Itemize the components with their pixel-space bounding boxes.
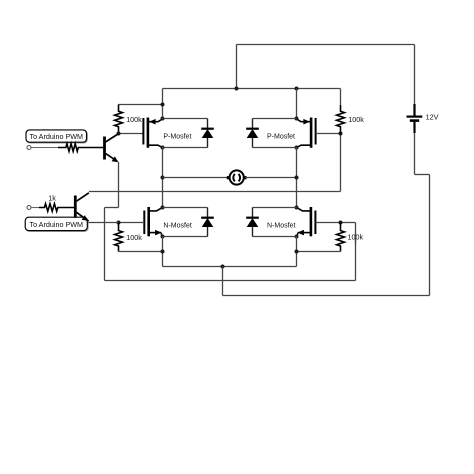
terminal J2 xyxy=(27,206,31,210)
svg-text:100k: 100k xyxy=(126,115,142,124)
node Q4 drain xyxy=(295,146,299,150)
node junction rail/R3 xyxy=(161,103,165,107)
wire gate N-Mosfet left xyxy=(119,222,145,224)
diode D3 (body, P right) xyxy=(252,119,254,129)
node Q6 source xyxy=(295,235,299,239)
diode D2 (body, N left) xyxy=(207,208,209,218)
wire Q1 emitter down xyxy=(118,162,120,208)
node R5 / gate junction xyxy=(339,132,343,136)
wire diode D1 loop bottom xyxy=(163,147,208,149)
wire left bridge mid xyxy=(162,148,164,208)
wire bottom return xyxy=(223,295,430,297)
diode D1 (body, P left) xyxy=(207,119,209,129)
wire top rail drop xyxy=(236,45,238,89)
svg-text:1k: 1k xyxy=(48,193,56,202)
node R6 / gate junction xyxy=(339,221,343,225)
node rail right bridge xyxy=(295,87,299,91)
node Q2 emitter junction xyxy=(117,221,121,225)
resistor R1 (input 1 series) xyxy=(58,144,103,152)
wire gate P-Mosfet right xyxy=(316,133,341,135)
motor M1 xyxy=(230,170,244,184)
node ground tap xyxy=(221,265,225,269)
wire Q1 emitter drop xyxy=(104,208,106,281)
node Q5 drain xyxy=(161,206,165,210)
node Q5 source xyxy=(161,235,165,239)
wire left source drop xyxy=(162,237,164,267)
wire Q2 emitter to gate junction xyxy=(89,222,119,224)
resistor R4 100k (left pulldown) xyxy=(115,223,123,252)
wire right bridge mid xyxy=(296,148,298,208)
node Q4 source xyxy=(295,117,299,121)
resistor R5 100k (upper right) xyxy=(337,105,345,134)
wire diode D4 loop top xyxy=(253,207,297,209)
resistor R3 100k xyxy=(115,105,123,134)
svg-text:P-Mosfet: P-Mosfet xyxy=(267,133,295,140)
node rail-left drop xyxy=(162,89,164,119)
wire 100k R3 top to rail xyxy=(119,104,163,106)
svg-text:100k: 100k xyxy=(126,233,142,242)
terminal J1 xyxy=(27,146,31,150)
mosfet Q6 N-Mosfet right xyxy=(314,211,316,235)
wire input 2 from terminal xyxy=(31,207,39,209)
wire R6 bottom to source xyxy=(297,251,341,253)
wire Q1 emitter jog xyxy=(105,207,119,209)
wire top supply xyxy=(237,44,415,46)
transistor Q2 NPN xyxy=(74,196,77,218)
wire diode D1 loop top xyxy=(163,118,208,120)
wire gate N-Mosfet right xyxy=(315,222,340,224)
resistor R2 1k xyxy=(39,204,75,212)
svg-text:N-Mosfet: N-Mosfet xyxy=(267,222,295,229)
diode D4 (body, N right) xyxy=(252,208,254,218)
wire motor left lead xyxy=(163,177,229,179)
wire Q1 emitter run to right xyxy=(105,280,356,282)
node left bridge motor tap xyxy=(161,176,165,180)
wire gate P-Mosfet left xyxy=(119,133,144,135)
battery BT1 12V xyxy=(413,104,415,116)
wire battery positive lead xyxy=(414,45,416,105)
mosfet Q4 P-Mosfet right xyxy=(315,118,317,145)
wire right source drop xyxy=(296,237,298,267)
wire motor right lead xyxy=(245,177,296,179)
wire diode D3 loop top xyxy=(253,118,297,120)
wire Q1 line to N-gate junction right xyxy=(341,222,356,224)
resistor R6 100k (right pulldown) xyxy=(337,223,345,252)
wire battery negative lead xyxy=(414,133,416,175)
node Q6 drain xyxy=(295,206,299,210)
mosfet Q3 P-Mosfet left xyxy=(142,118,144,145)
svg-text:100k: 100k xyxy=(348,115,364,124)
wire battery negative jog xyxy=(415,174,430,176)
label box To Arduino PWM (input 1) xyxy=(27,131,88,143)
label box To Arduino PWM (input 2) xyxy=(26,218,88,231)
node left source / R4 tie xyxy=(161,250,165,254)
transistor Q1 NPN xyxy=(103,137,106,160)
wire diode D4 loop bottom xyxy=(253,236,297,238)
node right bridge motor tap xyxy=(295,176,299,180)
wire Q1 line over label R6 xyxy=(355,234,357,245)
svg-text:P-Mosfet: P-Mosfet xyxy=(163,133,191,140)
node Q1 collector junction xyxy=(117,132,121,136)
node Q3 source xyxy=(161,117,165,121)
node right source / R6 tie xyxy=(295,250,299,254)
wire Q2 collector rise xyxy=(340,134,342,192)
wire ground drop xyxy=(222,267,224,296)
svg-text:N-Mosfet: N-Mosfet xyxy=(163,222,191,229)
wire R5 top from rail xyxy=(340,89,342,106)
wire right return rise xyxy=(429,175,431,296)
wire R4 bottom to source xyxy=(119,251,163,253)
wire diode D2 loop top xyxy=(163,207,208,209)
wire Q1 line rise xyxy=(355,223,357,281)
wire diode D3 loop bottom xyxy=(253,147,297,149)
svg-text:12V: 12V xyxy=(426,113,439,122)
node rail top-drop tie xyxy=(235,87,239,91)
node Q3 drain xyxy=(161,146,165,150)
mosfet Q5 N-Mosfet left xyxy=(143,211,145,235)
wire Q2 collector run xyxy=(89,191,341,193)
wire sources join xyxy=(163,266,297,268)
wire diode D2 loop bottom xyxy=(163,236,208,238)
wire input 1 from terminal xyxy=(31,147,58,149)
svg-text:To Arduino PWM: To Arduino PWM xyxy=(29,220,83,229)
wire top rail xyxy=(163,88,341,90)
svg-text:To Arduino PWM: To Arduino PWM xyxy=(29,132,83,141)
wire right bridge top drop xyxy=(296,89,298,119)
